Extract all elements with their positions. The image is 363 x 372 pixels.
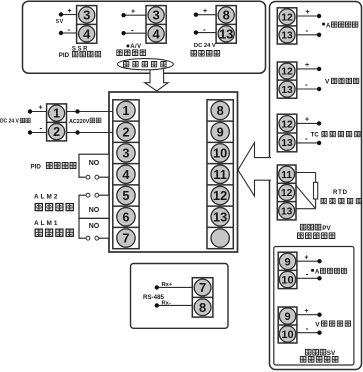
svg-text:10: 10 — [281, 329, 293, 341]
svg-text:11: 11 — [281, 170, 292, 181]
svg-text:+: + — [39, 104, 43, 111]
svg-text:13: 13 — [281, 206, 293, 217]
svg-text:13: 13 — [219, 26, 233, 41]
svg-text:4: 4 — [122, 167, 130, 182]
svg-text:A/V: A/V — [130, 44, 141, 50]
svg-text:V: V — [315, 322, 320, 329]
svg-text:RTD: RTD — [333, 190, 348, 196]
svg-text:Rx-: Rx- — [162, 300, 171, 306]
svg-text:NO: NO — [89, 223, 100, 230]
svg-text:DC 24 V: DC 24 V — [194, 43, 216, 49]
svg-text:9: 9 — [284, 311, 290, 323]
svg-text:7: 7 — [199, 280, 206, 295]
svg-text:5V: 5V — [56, 19, 64, 25]
svg-text:DC 24 V: DC 24 V — [0, 119, 20, 125]
svg-text:12: 12 — [281, 119, 293, 130]
svg-text:A: A — [326, 23, 331, 29]
svg-text:8: 8 — [199, 300, 206, 315]
svg-text:ALM2: ALM2 — [34, 194, 59, 201]
svg-text:13: 13 — [281, 31, 293, 42]
svg-text:+: + — [68, 8, 72, 15]
svg-text:V: V — [325, 79, 330, 86]
svg-text:NO: NO — [89, 207, 100, 214]
svg-text:PV: PV — [322, 225, 331, 232]
svg-text:12: 12 — [281, 67, 293, 78]
svg-text:5: 5 — [122, 188, 129, 203]
svg-text:6: 6 — [122, 209, 129, 224]
svg-text:13: 13 — [281, 85, 293, 96]
svg-text:3: 3 — [83, 8, 90, 23]
svg-text:-: - — [305, 134, 308, 143]
svg-text:13: 13 — [213, 209, 227, 224]
svg-text:-: - — [305, 80, 308, 89]
svg-text:11: 11 — [213, 167, 226, 182]
svg-text:PID: PID — [31, 163, 42, 170]
svg-text:9: 9 — [284, 256, 290, 268]
svg-text:RS-485: RS-485 — [143, 294, 165, 301]
svg-text:PID: PID — [59, 52, 70, 59]
svg-text:-: - — [68, 25, 71, 34]
svg-text:2: 2 — [122, 124, 129, 139]
svg-text:ALM1: ALM1 — [34, 220, 59, 227]
svg-text:13: 13 — [281, 138, 293, 149]
svg-text:+: + — [304, 308, 308, 315]
svg-text:+: + — [131, 9, 135, 16]
svg-text:-: - — [203, 25, 206, 34]
svg-text:8: 8 — [223, 8, 230, 23]
svg-text:8: 8 — [217, 103, 224, 118]
svg-text:-: - — [131, 25, 134, 34]
svg-text:+: + — [304, 254, 308, 261]
svg-text:10: 10 — [213, 146, 227, 161]
svg-text:1: 1 — [122, 103, 129, 118]
svg-text:-: - — [306, 324, 309, 333]
svg-text:10: 10 — [281, 274, 293, 286]
svg-text:+: + — [306, 9, 310, 16]
svg-text:3: 3 — [152, 8, 159, 23]
svg-text:+: + — [203, 8, 207, 15]
svg-text:9: 9 — [217, 124, 224, 139]
svg-text:A: A — [315, 270, 320, 276]
svg-text:1: 1 — [53, 107, 60, 121]
svg-text:+: + — [305, 117, 309, 124]
svg-text:4: 4 — [152, 26, 160, 41]
svg-text:TC: TC — [311, 133, 320, 139]
svg-text:7: 7 — [122, 231, 129, 246]
svg-text:12: 12 — [281, 188, 293, 199]
svg-text:12: 12 — [213, 188, 227, 203]
svg-text:4: 4 — [83, 26, 91, 41]
svg-text:AC220V: AC220V — [69, 119, 90, 125]
svg-text:2: 2 — [53, 125, 60, 139]
svg-text:-: - — [306, 26, 309, 35]
svg-text:-: - — [40, 123, 43, 132]
svg-text:-: - — [306, 270, 309, 279]
svg-text:3: 3 — [122, 146, 129, 161]
svg-text:+: + — [305, 62, 309, 69]
svg-text:12: 12 — [281, 13, 293, 24]
svg-text:Rx+: Rx+ — [162, 282, 173, 288]
svg-text:NO: NO — [89, 160, 100, 167]
